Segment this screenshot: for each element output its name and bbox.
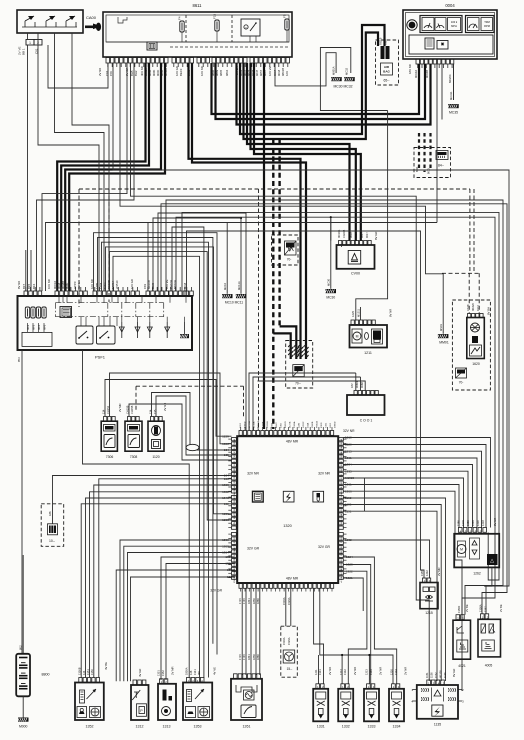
svg-text:2V MR: 2V MR xyxy=(171,666,175,675)
svg-text:1334: 1334 xyxy=(393,725,401,729)
svg-text:1313: 1313 xyxy=(163,725,171,729)
throttle unit 1262 xyxy=(454,518,499,576)
engine ECU 1320 xyxy=(237,436,338,583)
svg-text:1341A: 1341A xyxy=(293,421,296,428)
svg-text:CH05B: CH05B xyxy=(341,568,343,576)
canister purge valve 1620 xyxy=(467,318,485,367)
wire loop to MC30 MC32 xyxy=(275,48,388,111)
svg-text:8611: 8611 xyxy=(192,3,202,8)
pin row 8611 xyxy=(106,58,290,68)
svg-text:M1135: M1135 xyxy=(439,670,443,678)
glow plug icon 70 second xyxy=(293,365,304,386)
svg-text:8V GR: 8V GR xyxy=(452,669,456,677)
svg-text:7308: 7308 xyxy=(130,455,138,459)
component 4005 xyxy=(478,604,503,667)
svg-text:9018: 9018 xyxy=(341,460,343,466)
svg-text:4V GR: 4V GR xyxy=(138,669,142,677)
svg-text:1215: 1215 xyxy=(425,611,433,615)
svg-text:1203C: 1203C xyxy=(234,563,236,570)
svg-text:▣: ▣ xyxy=(441,41,445,46)
svg-text:RPM: RPM xyxy=(484,24,490,28)
svg-text:M1320: M1320 xyxy=(341,479,343,486)
svg-text:△: △ xyxy=(490,558,494,564)
svg-text:1590B: 1590B xyxy=(341,519,343,526)
ECU pin side labels xyxy=(233,439,343,583)
svg-text:9080D: 9080D xyxy=(335,421,337,428)
svg-text:MC30: MC30 xyxy=(326,296,335,300)
air bag connector pins xyxy=(379,37,390,59)
svg-text:9080D: 9080D xyxy=(245,421,247,428)
svg-text:1218A: 1218A xyxy=(233,492,236,499)
svg-text:BSV2: BSV2 xyxy=(234,513,236,519)
svg-text:1385: 1385 xyxy=(457,520,461,526)
svg-text:4005: 4005 xyxy=(485,664,493,668)
relay 1 inside PSF1 xyxy=(76,326,93,344)
svg-text:BF4: BF4 xyxy=(32,283,36,289)
svg-text:9172: 9172 xyxy=(476,305,480,311)
wire labels below 0004 xyxy=(408,64,452,83)
svg-text:9017: 9017 xyxy=(365,232,369,238)
svg-text:M010A: M010A xyxy=(257,421,260,428)
svg-text:16V: 16V xyxy=(285,71,289,76)
svg-text:4V BE: 4V BE xyxy=(104,662,108,670)
dashed box glow plug 70 first xyxy=(272,235,299,265)
svg-text:853: 853 xyxy=(17,357,21,362)
ECU left wires 1226 1203 xyxy=(222,512,229,522)
svg-text:32V GR: 32V GR xyxy=(210,589,222,593)
ECU lightning icon xyxy=(283,491,294,502)
svg-text:1386: 1386 xyxy=(466,520,470,526)
svg-text:BF7: BF7 xyxy=(22,283,26,289)
svg-text:1225: 1225 xyxy=(351,311,355,317)
svg-text:1850A: 1850A xyxy=(185,667,189,675)
svg-text:1218: 1218 xyxy=(481,520,485,526)
relay inside 8611 xyxy=(241,19,260,36)
svg-text:M1211: M1211 xyxy=(357,308,361,317)
glow plug icon 70 first xyxy=(285,241,297,262)
dashed boundary around sensors xyxy=(136,386,244,417)
svg-text:100 k: 100 k xyxy=(451,20,458,24)
svg-text:1356: 1356 xyxy=(341,473,343,479)
ECU right pin column xyxy=(339,438,347,580)
svg-text:1856: 1856 xyxy=(252,598,256,604)
wires switch box to PSF1 xyxy=(28,33,110,291)
relay 2 inside PSF1 xyxy=(97,326,116,344)
svg-text:PS02A: PS02A xyxy=(340,536,343,543)
wire 10 box to ECU xyxy=(53,476,232,524)
thick wires 8611 to glow plugs 70 xyxy=(189,63,307,359)
svg-text:32V NR: 32V NR xyxy=(343,429,355,433)
ECU right wires to 1262 nest xyxy=(344,436,491,681)
gauge cluster right block xyxy=(466,16,495,33)
svg-text:C O O 1: C O O 1 xyxy=(360,419,373,423)
svg-text:AIR: AIR xyxy=(384,65,390,69)
ground MC10 xyxy=(222,223,233,299)
svg-text:K30G: K30G xyxy=(321,422,323,428)
svg-text:K30G: K30G xyxy=(234,447,236,453)
svg-text:1613: 1613 xyxy=(240,422,242,428)
svg-text:16V GR: 16V GR xyxy=(130,279,134,289)
injector 1331 xyxy=(313,667,332,729)
ECU left wire 1229 1300 134 135 xyxy=(222,434,229,457)
svg-text:2V NR: 2V NR xyxy=(379,667,383,675)
svg-text:PS02A: PS02A xyxy=(233,439,236,446)
svg-text:1866: 1866 xyxy=(256,598,260,604)
svg-text:1350B: 1350B xyxy=(78,667,82,675)
svg-text:MF3: MF3 xyxy=(32,324,36,330)
wire labels below 8611 xyxy=(98,66,289,76)
ground MC35 xyxy=(448,64,459,115)
ECU top pin labels xyxy=(240,420,337,428)
svg-text:9804: 9804 xyxy=(225,69,229,76)
svg-text:135: 135 xyxy=(224,453,229,457)
long distribution wires to right margin xyxy=(113,63,509,681)
wires PSF1 risers to lower components xyxy=(94,213,425,678)
svg-text:1613: 1613 xyxy=(330,422,332,428)
svg-text:1135: 1135 xyxy=(434,723,441,727)
svg-text:BSV2: BSV2 xyxy=(341,467,343,473)
svg-text:104A: 104A xyxy=(233,570,236,576)
svg-text:15--: 15-- xyxy=(287,667,293,671)
pin row C001 xyxy=(354,391,378,396)
svg-text:M1620: M1620 xyxy=(471,303,475,311)
glow plug icon in 1620 box xyxy=(456,368,467,385)
svg-text:1203C: 1203C xyxy=(341,506,343,513)
svg-text:1356: 1356 xyxy=(281,422,283,428)
svg-text:8011: 8011 xyxy=(415,166,419,172)
svg-text:84--: 84-- xyxy=(438,164,444,168)
svg-text:122B: 122B xyxy=(299,422,301,428)
svg-text:4: 4 xyxy=(411,700,413,704)
label 853 wire xyxy=(17,350,22,653)
svg-text:9018: 9018 xyxy=(234,507,236,513)
ground MC11 xyxy=(223,217,246,305)
svg-text:1120: 1120 xyxy=(152,455,159,459)
connector icon inside 8611 xyxy=(147,42,157,50)
svg-text:1: 1 xyxy=(29,41,31,45)
sensor 7308 xyxy=(118,403,142,459)
svg-text:1332: 1332 xyxy=(342,725,350,729)
svg-text:MF2: MF2 xyxy=(26,324,30,330)
pin row 0004 xyxy=(416,59,454,68)
svg-text:1715: 1715 xyxy=(238,654,242,660)
svg-text:C101: C101 xyxy=(326,422,328,428)
dashed box 10 xyxy=(41,504,64,547)
svg-text:MF6: MF6 xyxy=(43,324,47,330)
ECU left wires 1590 1363 1364 xyxy=(120,538,232,681)
wires cluster pins down xyxy=(437,64,454,223)
svg-text:C001B: C001B xyxy=(234,499,236,506)
dashed box 1620 xyxy=(452,300,490,390)
svg-text:1216: 1216 xyxy=(390,669,394,675)
fuse F15 xyxy=(213,13,220,31)
svg-text:0004: 0004 xyxy=(445,3,455,8)
svg-text:126: 126 xyxy=(189,670,193,675)
svg-text:1218A: 1218A xyxy=(340,446,343,453)
svg-text:+L15A: +L15A xyxy=(340,576,343,583)
svg-text:M: M xyxy=(460,548,463,552)
svg-text:2V MR: 2V MR xyxy=(118,403,122,412)
svg-text:C101: C101 xyxy=(341,550,343,556)
svg-text:P: P xyxy=(140,709,143,713)
svg-text:MC311: MC311 xyxy=(449,91,453,100)
injector 1332 xyxy=(338,667,357,729)
svg-text:9805: 9805 xyxy=(219,69,223,76)
svg-text:16V VE: 16V VE xyxy=(268,66,272,76)
ground MC32 top xyxy=(344,67,355,81)
wire 1262 to 4005 xyxy=(484,567,492,586)
ground inside PSF1 xyxy=(180,322,189,338)
dashed box 15 xyxy=(281,626,298,677)
svg-text:BF5: BF5 xyxy=(27,283,31,289)
svg-text:2V MR: 2V MR xyxy=(437,567,441,576)
component 1353 xyxy=(183,667,217,729)
svg-text:70-: 70- xyxy=(287,258,292,262)
component 1215 xyxy=(420,567,441,615)
svg-text:M0206: M0206 xyxy=(448,74,452,83)
connector icon in 84 box xyxy=(436,151,448,168)
ECU bottom wires to injector supply xyxy=(314,589,393,684)
svg-text:1341A: 1341A xyxy=(233,549,236,556)
fuse F5 inside 8611 xyxy=(283,14,290,30)
svg-text:MC11A: MC11A xyxy=(237,281,241,290)
svg-text:8V NR: 8V NR xyxy=(493,518,497,526)
svg-text:9172B: 9172B xyxy=(234,543,236,550)
svg-text:32V NR: 32V NR xyxy=(318,472,330,476)
labels MC30 MC32 xyxy=(333,85,352,89)
svg-text:CH05B: CH05B xyxy=(249,420,251,428)
svg-text:1613: 1613 xyxy=(341,557,343,563)
svg-text:1341: 1341 xyxy=(193,669,197,675)
svg-text:10--: 10-- xyxy=(49,539,55,543)
pin row 1211 xyxy=(351,320,375,325)
svg-text:1341A: 1341A xyxy=(340,492,343,499)
svg-text:1356A: 1356A xyxy=(479,604,483,612)
svg-text:MPH: MPH xyxy=(451,24,457,28)
ECU right wire 1232 xyxy=(344,538,430,578)
instrument cluster 0004 xyxy=(403,3,497,59)
svg-text:1135: 1135 xyxy=(443,672,447,678)
ECU bottom pin row xyxy=(210,584,333,593)
svg-text:CH05B: CH05B xyxy=(234,471,236,479)
svg-text:1355: 1355 xyxy=(420,570,424,576)
thick wire 8611 to ECU supply xyxy=(263,63,265,429)
svg-text:PSF1: PSF1 xyxy=(95,355,106,360)
svg-text:1745: 1745 xyxy=(242,654,246,660)
svg-text:1745: 1745 xyxy=(242,598,246,604)
svg-text:1331: 1331 xyxy=(318,669,322,675)
fuses inside PSF1 xyxy=(25,307,46,330)
thick wire 8611 to cluster 9004 xyxy=(212,63,431,125)
svg-text:1332: 1332 xyxy=(343,669,347,675)
component 1352 xyxy=(75,662,108,729)
svg-text:9004A: 9004A xyxy=(414,70,418,78)
svg-text:4021: 4021 xyxy=(458,664,466,668)
svg-text:1516A: 1516A xyxy=(282,597,286,605)
svg-text:BAG: BAG xyxy=(383,70,390,74)
svg-text:122B: 122B xyxy=(234,557,236,563)
thick wire bridge to air bag xyxy=(240,25,385,139)
warning lamp round gauge xyxy=(407,20,417,30)
svg-text:32V GR: 32V GR xyxy=(247,547,260,551)
ECU bottom-right wires 1321-1324 to injectors xyxy=(344,555,397,683)
svg-text:CA00B: CA00B xyxy=(342,230,346,238)
label CA00 xyxy=(86,15,97,20)
battery 8800 xyxy=(16,555,49,696)
connector icon inside PSF1 xyxy=(60,307,72,318)
svg-text:4V VE: 4V VE xyxy=(213,667,217,675)
wires PSF1 to right margin xyxy=(46,200,508,691)
ground MC30 lower xyxy=(325,216,341,299)
svg-text:+L15A: +L15A xyxy=(253,421,256,428)
fuse relay box PSF1 xyxy=(18,296,193,360)
svg-text:PS02A: PS02A xyxy=(316,421,319,428)
svg-text:8800: 8800 xyxy=(42,673,50,677)
ignition key symbol xyxy=(85,23,101,31)
svg-text:1613: 1613 xyxy=(234,460,236,466)
svg-text:1229: 1229 xyxy=(222,434,229,438)
svg-text:1352: 1352 xyxy=(86,725,94,729)
svg-text:124: 124 xyxy=(82,670,86,675)
svg-text:1356: 1356 xyxy=(234,520,236,526)
ground MM01 xyxy=(438,323,449,344)
svg-text:C101: C101 xyxy=(234,453,236,459)
thick wires 8611 to horn CV00 xyxy=(247,63,361,241)
svg-text:MC32: MC32 xyxy=(345,67,349,75)
ECU bottom wires to 1261 xyxy=(238,589,260,676)
dashed box AIR BAG 65 xyxy=(376,40,399,85)
ECU connector icon xyxy=(253,491,264,502)
svg-text:1151: 1151 xyxy=(425,672,429,678)
svg-text:9617: 9617 xyxy=(354,232,358,238)
svg-text:1261: 1261 xyxy=(243,725,251,729)
svg-text:1211: 1211 xyxy=(314,669,318,675)
svg-text:1312: 1312 xyxy=(136,725,144,729)
svg-text:1226: 1226 xyxy=(222,512,229,516)
gauge cluster left block xyxy=(420,16,462,33)
ground M000 xyxy=(18,696,29,728)
svg-text:M1320: M1320 xyxy=(234,536,236,543)
svg-text:MM01: MM01 xyxy=(439,341,449,345)
ECU bottom-left wires 1351 1352 131 150 xyxy=(116,555,235,681)
svg-text:1516A: 1516A xyxy=(282,637,286,645)
dashed harness boundary top xyxy=(79,189,480,430)
svg-text:CA00: CA00 xyxy=(86,15,97,20)
svg-text:MC10: MC10 xyxy=(223,282,227,290)
svg-text:1353: 1353 xyxy=(194,725,202,729)
diodes inside PSF1 xyxy=(119,322,169,338)
svg-text:1351: 1351 xyxy=(157,670,161,676)
svg-text:1213: 1213 xyxy=(365,669,369,675)
svg-text:1211: 1211 xyxy=(364,351,372,355)
svg-text:134: 134 xyxy=(224,448,229,452)
svg-text:MC30: MC30 xyxy=(327,278,331,286)
svg-text:MS01: MS01 xyxy=(439,323,443,331)
svg-text:1320: 1320 xyxy=(283,524,291,528)
svg-text:8V NR: 8V NR xyxy=(389,309,393,317)
svg-text:8V BA: 8V BA xyxy=(487,307,491,315)
dashed wires into 84 box xyxy=(415,133,431,174)
svg-text:C001B: C001B xyxy=(341,452,343,459)
wires to 1211 xyxy=(351,111,393,321)
pin row CV00 xyxy=(339,241,372,246)
svg-text:BSV2: BSV2 xyxy=(276,422,278,428)
svg-text:3: 3 xyxy=(462,700,464,704)
svg-text:M010A: M010A xyxy=(340,439,343,446)
component 1313 xyxy=(157,666,177,728)
svg-text:CH05B: CH05B xyxy=(130,405,134,414)
dashed box glow plug 70 second xyxy=(286,341,313,389)
component 1261 xyxy=(231,674,262,729)
wires above C001 xyxy=(249,373,365,430)
svg-text:MC35: MC35 xyxy=(449,111,458,115)
svg-text:1379: 1379 xyxy=(461,520,465,526)
svg-text:9172B: 9172B xyxy=(290,421,292,428)
dashed box 84 xyxy=(414,148,451,178)
svg-text:1203C: 1203C xyxy=(303,421,305,428)
svg-text:1262: 1262 xyxy=(473,572,481,576)
svg-text:104A: 104A xyxy=(340,513,343,519)
svg-text:K2PL: K2PL xyxy=(77,282,81,289)
svg-text:M: M xyxy=(356,335,359,339)
svg-text:65--: 65-- xyxy=(383,79,389,83)
svg-text:2/3510: 2/3510 xyxy=(115,280,119,289)
svg-text:1590B: 1590B xyxy=(312,421,314,428)
svg-text:32V NR: 32V NR xyxy=(247,472,259,476)
component 4021 xyxy=(453,604,471,668)
ECU injector icon xyxy=(313,491,324,502)
svg-text:9080: 9080 xyxy=(65,282,69,289)
fuel pump unit 1211 xyxy=(350,325,388,355)
svg-text:+L15A: +L15A xyxy=(233,479,236,486)
svg-text:M010A: M010A xyxy=(337,230,341,238)
ECU bottom wires to 15 box xyxy=(282,589,291,627)
PSF1 bottom left sub box xyxy=(22,323,52,346)
fan icon in 15 box xyxy=(282,637,295,671)
wire long left boundary to 1353 xyxy=(83,350,190,678)
svg-text:CV00: CV00 xyxy=(351,272,360,276)
svg-text:2V NR: 2V NR xyxy=(353,667,357,675)
svg-text:1350: 1350 xyxy=(90,669,94,675)
fuse leads 8611 xyxy=(182,30,287,42)
svg-text:F15: F15 xyxy=(213,13,217,19)
svg-text:F4: F4 xyxy=(178,16,182,20)
wires sensors to ECU xyxy=(105,373,232,460)
svg-text:13560: 13560 xyxy=(457,605,461,613)
svg-text:1357: 1357 xyxy=(484,606,488,612)
ignition switch unit box xyxy=(17,10,83,33)
injector 1334 xyxy=(389,667,408,729)
ECU top pin row xyxy=(239,427,355,435)
PSF1 internal link wires xyxy=(59,296,186,326)
svg-text:9018: 9018 xyxy=(272,422,274,428)
fuse F4 xyxy=(178,16,185,32)
svg-text:8013: 8013 xyxy=(427,168,431,174)
svg-text:1856: 1856 xyxy=(252,654,256,660)
svg-text:1529A: 1529A xyxy=(287,597,291,605)
svg-text:2V BE: 2V BE xyxy=(499,604,503,612)
horn unit CV00 xyxy=(337,245,375,276)
svg-text:M1320: M1320 xyxy=(285,421,287,428)
svg-text:1300: 1300 xyxy=(222,442,229,446)
svg-text:CS18: CS18 xyxy=(466,304,470,311)
svg-text:1841: 1841 xyxy=(247,598,251,604)
svg-text:104A: 104A xyxy=(307,422,310,428)
fuse box 8611 xyxy=(103,3,292,57)
svg-text:2: 2 xyxy=(462,688,464,692)
svg-text:1620: 1620 xyxy=(472,362,480,366)
thick wire bus 8611 to PSF1 group xyxy=(57,63,165,291)
